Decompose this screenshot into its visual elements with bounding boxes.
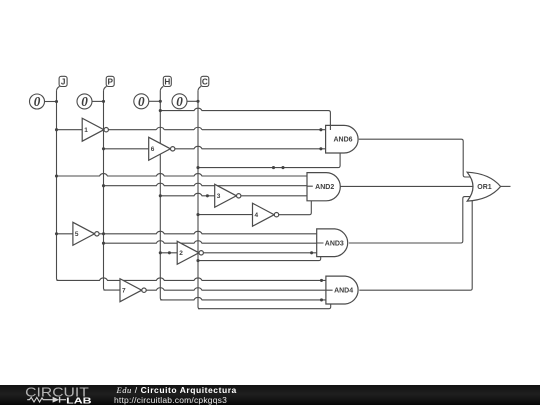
svg-text:1: 1	[84, 127, 88, 134]
svg-text:0: 0	[176, 94, 183, 109]
svg-text:5: 5	[75, 231, 79, 238]
svg-text:J: J	[61, 78, 66, 87]
svg-text:C: C	[202, 78, 208, 87]
svg-text:P: P	[107, 78, 113, 87]
svg-text:0: 0	[34, 94, 41, 109]
svg-text:AND3: AND3	[325, 240, 344, 247]
svg-text:0: 0	[81, 94, 88, 109]
svg-text:AND2: AND2	[315, 184, 334, 191]
svg-text:7: 7	[122, 288, 126, 295]
svg-text:OR1: OR1	[477, 184, 492, 191]
svg-text:2: 2	[179, 250, 183, 257]
svg-text:AND6: AND6	[333, 137, 352, 144]
svg-text:H: H	[164, 78, 170, 87]
svg-text:3: 3	[217, 193, 221, 200]
svg-text:LAB: LAB	[66, 397, 92, 405]
svg-text:0: 0	[138, 94, 145, 109]
svg-text:6: 6	[151, 146, 155, 153]
svg-text:AND4: AND4	[334, 288, 353, 295]
svg-text:4: 4	[255, 212, 259, 219]
